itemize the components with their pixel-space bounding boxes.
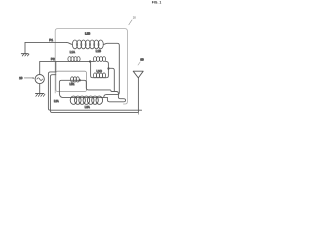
- svg-text:L1B: L1B: [96, 49, 101, 53]
- wire source down to ground G2: [39, 84, 41, 94]
- inductor L3A (bottom coil, loops hang down): [70, 96, 102, 104]
- inductor L2B (top horizontal coil): [67, 42, 73, 44]
- svg-text:FIG. 1: FIG. 1: [152, 0, 162, 4]
- svg-text:L2B: L2B: [85, 32, 90, 36]
- svg-text:L1C: L1C: [97, 69, 102, 73]
- tap node dot on bracket: [107, 67, 109, 69]
- antenna feed line: [137, 78, 139, 113]
- inductor LB1: [71, 77, 80, 82]
- bus wire W1: inner box to antenna feed: [48, 72, 141, 110]
- inner box (around LB1 coil): [56, 71, 87, 91]
- tap wire right then down: [109, 68, 115, 91]
- svg-text:30: 30: [140, 58, 144, 62]
- LB1 right dot: [79, 79, 81, 81]
- inductor L1A: [68, 57, 80, 62]
- bus wire W2: inner box left edge to antenna feed: [50, 75, 138, 113]
- svg-text:LB1: LB1: [70, 82, 75, 86]
- ground G1: [24, 42, 26, 53]
- AC source circle: [35, 75, 44, 84]
- ground G2: [36, 92, 44, 94]
- snake wire from LB1 right end to right return: [80, 80, 126, 102]
- outer box (matching network module, open bottom): [55, 29, 127, 104]
- svg-text:L2A: L2A: [54, 99, 59, 103]
- feed stub tip: [137, 113, 139, 115]
- svg-text:P2: P2: [51, 57, 55, 61]
- P2 branch down to inner box: [55, 61, 57, 71]
- bracket joining L1B and L1C right ends: [106, 61, 109, 77]
- LB1 lead and left drop to bottom coil: [59, 80, 107, 97]
- wire P1 horizontal: [25, 41, 67, 43]
- svg-text:P1: P1: [49, 38, 53, 42]
- inductor L1B: [93, 57, 105, 62]
- antenna: [133, 71, 143, 78]
- inductor L1C: [93, 73, 105, 78]
- node dot: [89, 60, 91, 62]
- sine inside source: [37, 78, 43, 81]
- svg-text:L1A: L1A: [70, 50, 75, 54]
- svg-text:10: 10: [19, 76, 23, 80]
- wire from L2B right around to lower right return: [103, 43, 119, 97]
- wire L1C left lead up to node: [91, 61, 106, 77]
- wire source up and P2 wire: [40, 61, 94, 74]
- svg-text:20: 20: [133, 16, 137, 20]
- svg-text:L3A: L3A: [85, 105, 90, 109]
